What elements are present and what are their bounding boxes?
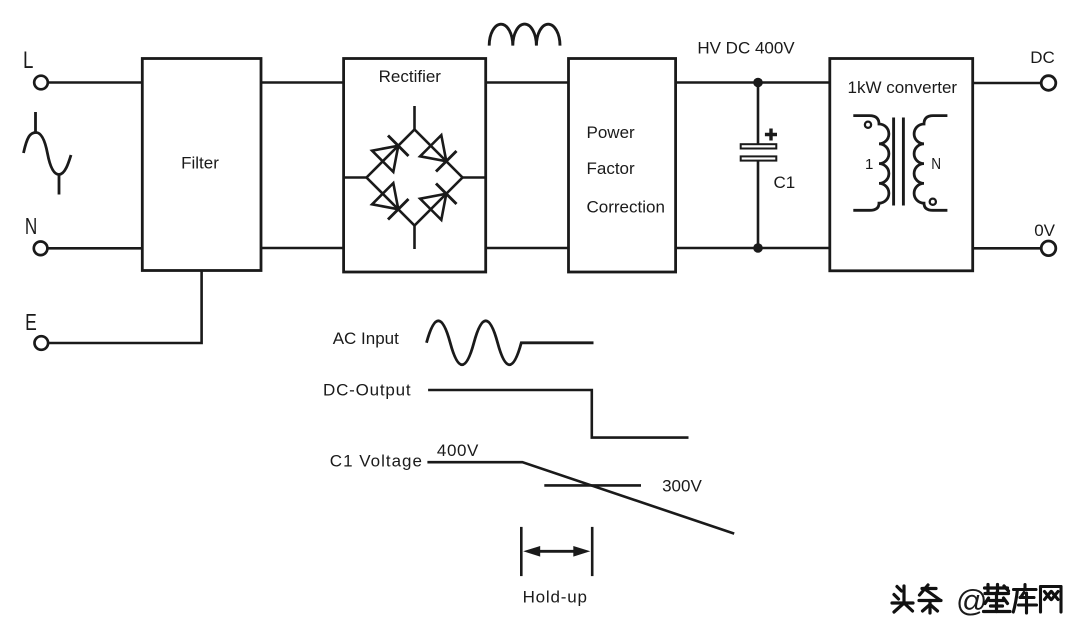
diode D1	[372, 136, 408, 172]
C1 voltage waveform	[427, 462, 734, 533]
svg-text:AC Input: AC Input	[333, 329, 399, 348]
svg-text:L: L	[23, 47, 33, 74]
node N terminal	[34, 242, 48, 256]
transformer T1 primary winding	[853, 116, 889, 211]
capacitor C1	[741, 83, 796, 249]
wire Filter to Rectifier top	[261, 81, 344, 84]
wire Rectifier to PFC bottom	[486, 247, 569, 250]
svg-text:Hold-up: Hold-up	[523, 587, 588, 606]
hold-up arrow	[523, 546, 590, 557]
svg-text:1kW converter: 1kW converter	[848, 78, 958, 97]
wire E to Filter bottom	[48, 271, 202, 344]
block Rectifier	[344, 59, 486, 273]
bridge bottom stub	[413, 226, 416, 250]
node L terminal	[34, 76, 48, 90]
hold-up right marker	[591, 527, 594, 576]
bridge diamond wires	[367, 130, 463, 226]
transformer T1 secondary winding	[914, 116, 947, 211]
svg-text:N: N	[25, 213, 37, 239]
diode D2	[420, 135, 456, 171]
block Filter	[142, 59, 261, 271]
hold-up left marker	[520, 527, 523, 576]
wire L to Filter	[48, 81, 143, 84]
block 1kW converter	[830, 59, 973, 271]
watermark 塑	[984, 585, 1011, 612]
wire PFC to converter bottom	[676, 247, 830, 250]
node 0V terminal	[1041, 241, 1056, 256]
svg-text:DC: DC	[1030, 48, 1055, 67]
watermark 网	[1041, 587, 1062, 613]
DC-Output waveform	[428, 390, 688, 438]
node E terminal	[35, 336, 49, 350]
svg-text:Power: Power	[587, 123, 636, 142]
watermark 库	[1013, 585, 1036, 614]
block Power Factor Correction	[569, 59, 676, 273]
junction top rail	[753, 78, 763, 88]
svg-text:HV DC 400V: HV DC 400V	[697, 39, 795, 58]
svg-text:400V: 400V	[437, 441, 479, 460]
svg-text:C1 Voltage: C1 Voltage	[330, 452, 423, 471]
inductor coil	[489, 24, 560, 46]
wire N to Filter	[47, 247, 142, 250]
wire converter to DC	[973, 82, 1041, 85]
wire converter to 0V	[973, 247, 1041, 250]
300V level line	[544, 484, 641, 487]
transformer core	[894, 118, 904, 206]
transformer secondary polarity dot	[930, 199, 936, 205]
svg-text:N: N	[931, 156, 941, 173]
bridge right stub	[463, 176, 486, 179]
watermark 头	[892, 586, 913, 612]
junction bottom rail	[753, 243, 763, 253]
AC source sine symbol	[24, 112, 72, 195]
svg-text:300V: 300V	[662, 477, 702, 496]
diode D3	[372, 183, 408, 219]
node DC terminal	[1041, 76, 1056, 91]
svg-text:Factor: Factor	[587, 159, 636, 178]
svg-text:1: 1	[865, 156, 873, 173]
wire Rectifier to PFC top	[486, 81, 569, 84]
bridge top stub	[413, 106, 416, 130]
transformer primary polarity dot	[865, 122, 871, 128]
svg-text:DC-Output: DC-Output	[323, 381, 411, 400]
wire Filter to Rectifier bottom	[261, 247, 344, 250]
svg-text:Correction: Correction	[587, 198, 665, 217]
diode D4	[420, 184, 456, 220]
wire PFC to converter top (HV DC rail)	[676, 81, 830, 84]
svg-text:E: E	[25, 311, 37, 336]
svg-text:0V: 0V	[1034, 221, 1055, 240]
svg-text:C1: C1	[774, 173, 796, 192]
svg-text:Rectifier: Rectifier	[379, 67, 442, 86]
watermark 条	[919, 585, 941, 613]
AC Input waveform	[427, 321, 594, 365]
bridge left stub	[344, 176, 367, 179]
svg-text:Filter: Filter	[181, 154, 219, 173]
